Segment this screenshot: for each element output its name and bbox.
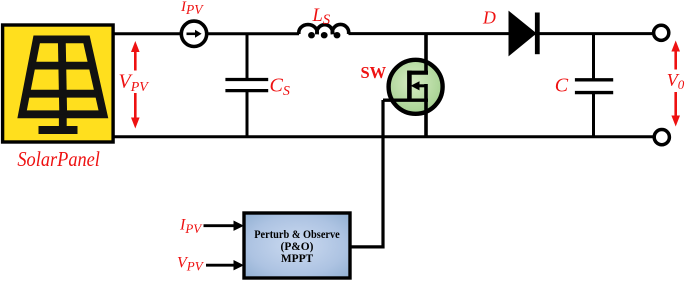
svg-text:SW: SW	[361, 63, 387, 82]
svg-text:Perturb & Observe: Perturb & Observe	[254, 229, 340, 241]
svg-text:C: C	[555, 74, 569, 96]
svg-text:IPV: IPV	[180, 0, 204, 17]
svg-text:(P&O): (P&O)	[281, 241, 314, 253]
svg-text:SolarPanel: SolarPanel	[17, 147, 100, 171]
svg-text:D: D	[482, 7, 496, 27]
svg-text:MPPT: MPPT	[281, 253, 314, 265]
